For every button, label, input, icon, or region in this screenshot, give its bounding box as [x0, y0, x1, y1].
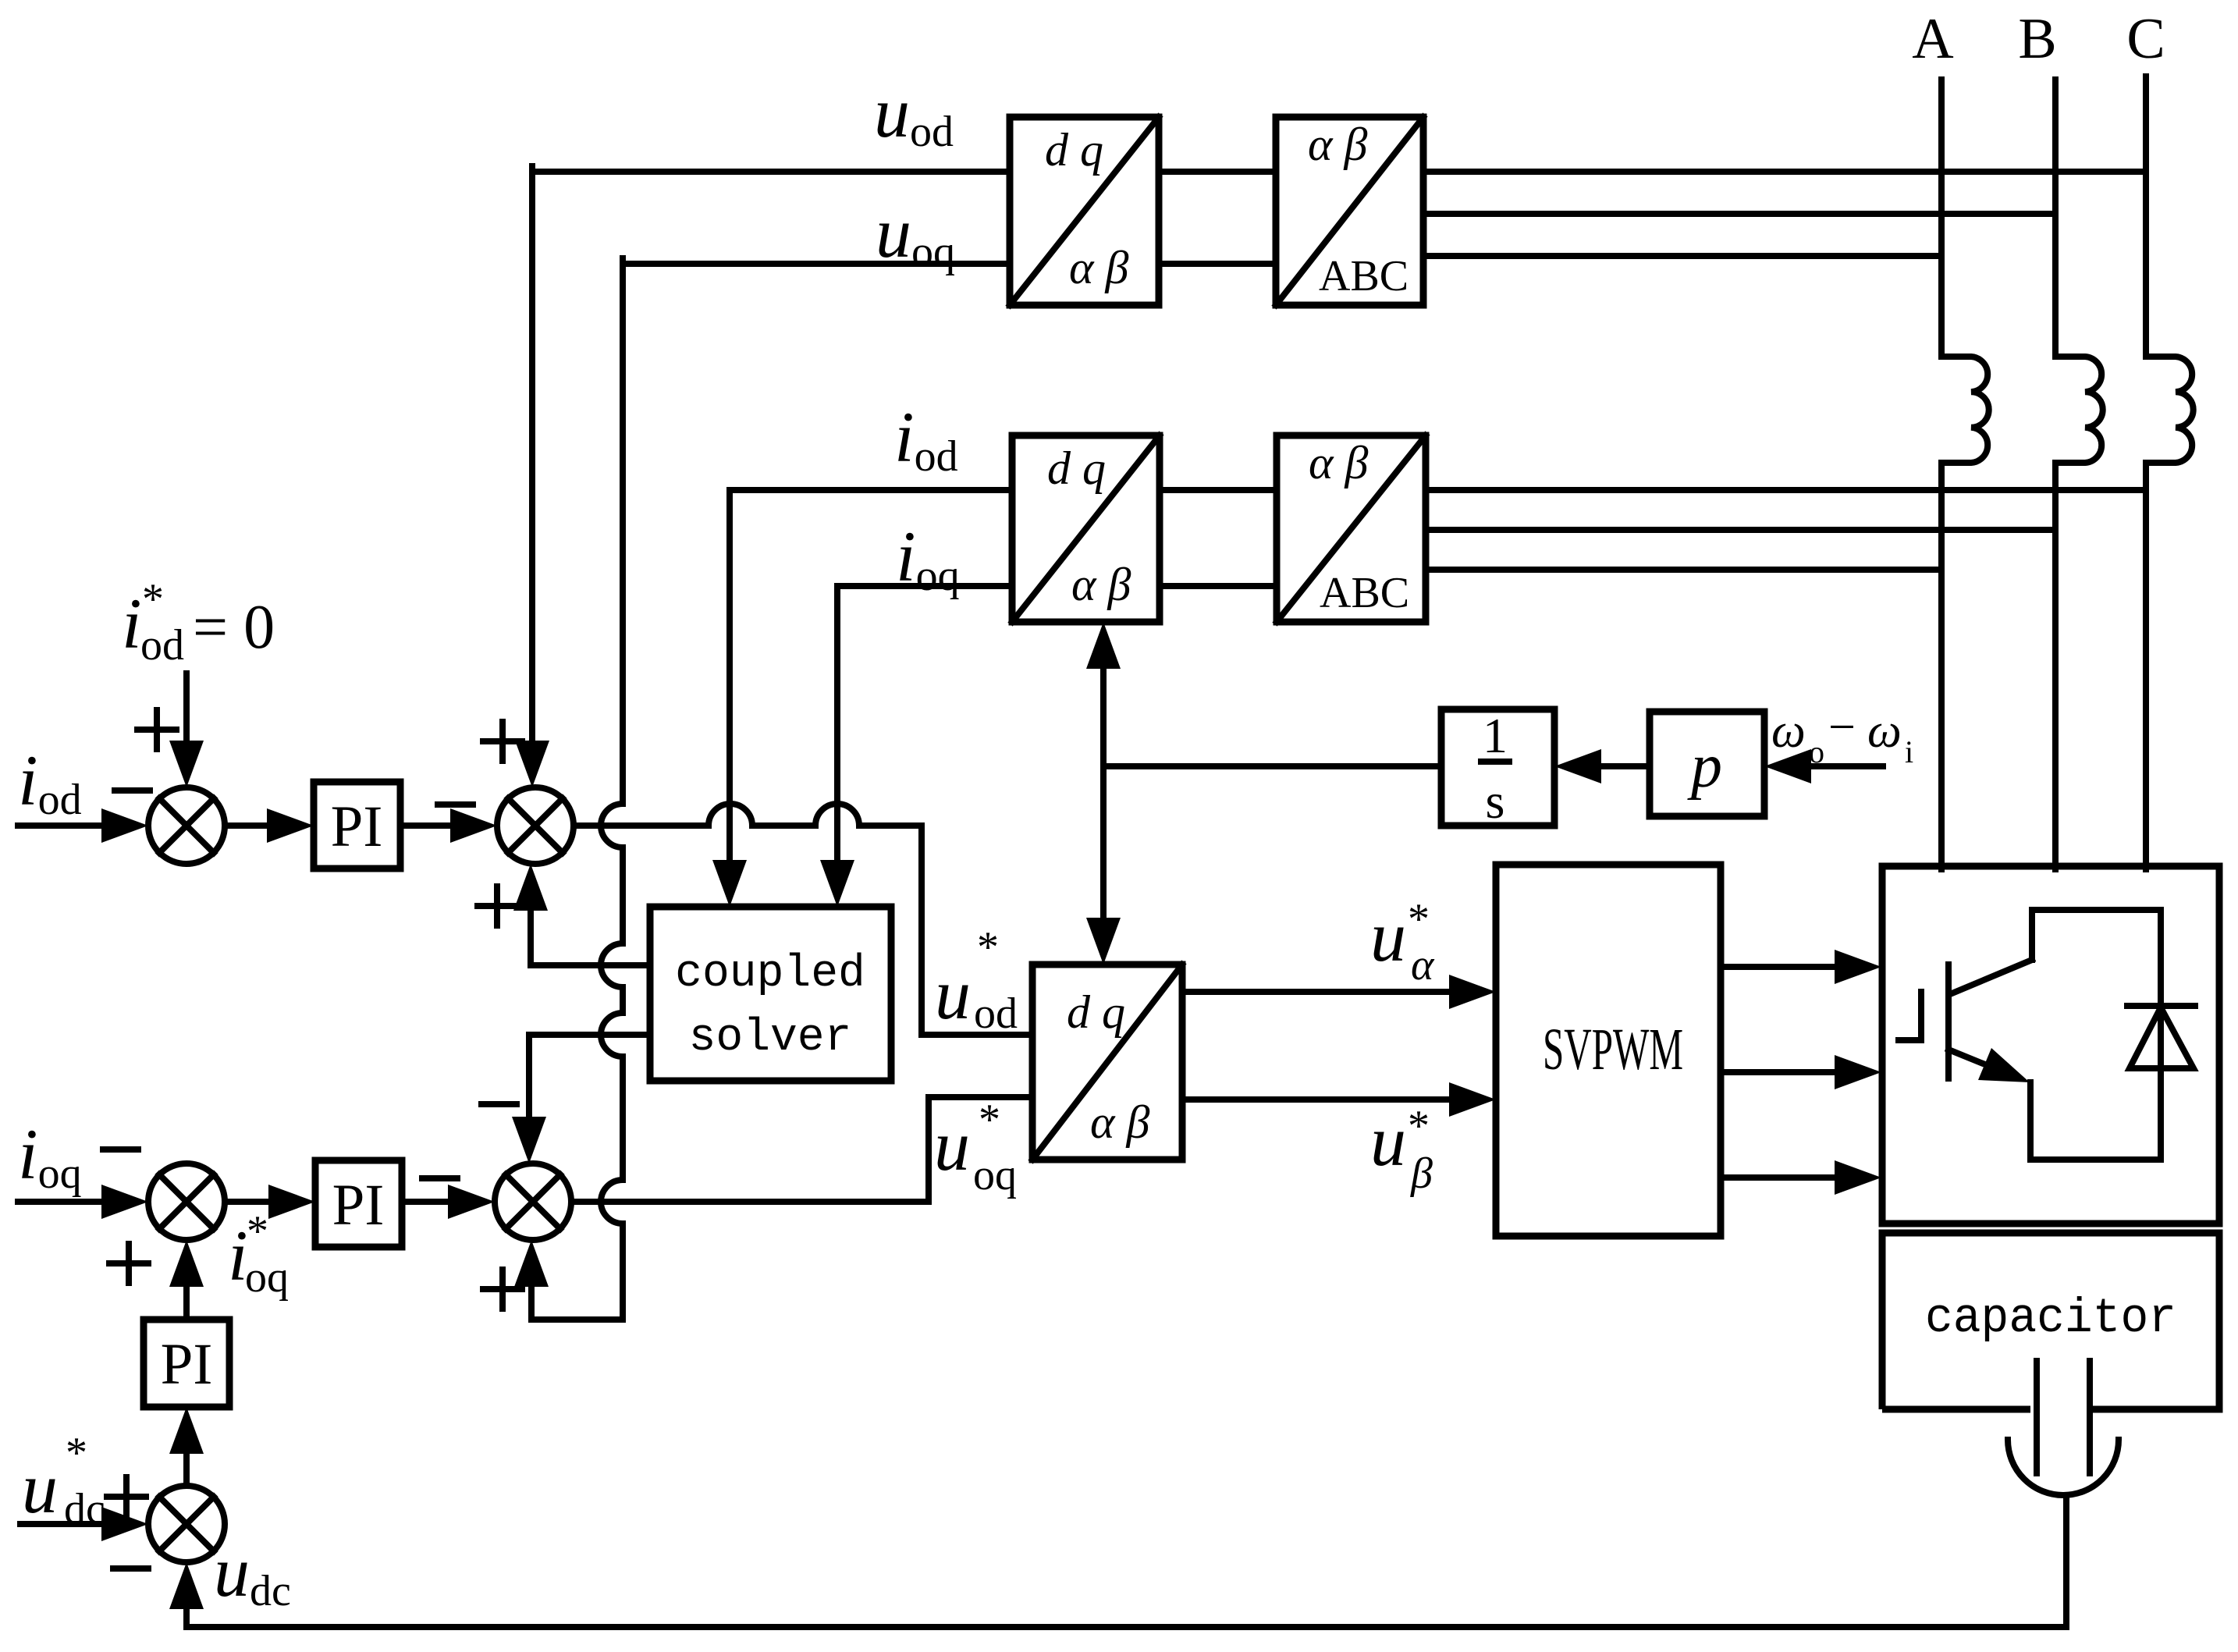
- wire SVPWM gate signal 1: [1721, 964, 1837, 970]
- arrowhead u*beta into SVPWM: [1449, 1082, 1496, 1117]
- wire integrator output to theta node: [1103, 763, 1441, 769]
- svg-text:oq: oq: [973, 1151, 1017, 1199]
- wire IGBT emitter rail: [2030, 1082, 2161, 1160]
- wire ioq tap horizontal: [837, 583, 1012, 589]
- summer S3 (ioq error): [148, 1164, 225, 1240]
- svg-text:*: *: [979, 1096, 1000, 1144]
- svg-text:B: B: [2018, 7, 2056, 71]
- wire coupled solver lower output to S4 top: [529, 1035, 650, 1118]
- svg-text:α β: α β: [1308, 119, 1367, 170]
- wire phase B vertical lower: [2052, 463, 2059, 869]
- diode D1 cathode lead: [2158, 910, 2164, 1006]
- block U1 dq/alpha-beta (voltage): [1010, 117, 1159, 305]
- wire p block to integrator: [1600, 763, 1650, 769]
- svg-text:*: *: [66, 1429, 87, 1477]
- svg-text:ABC: ABC: [1319, 252, 1409, 300]
- wire ioq input into S3: [18, 1199, 105, 1205]
- svg-text:*: *: [1408, 1102, 1430, 1150]
- wire uoq tap vertical (hops over four horizontals): [531, 258, 623, 1320]
- summer S2 (d-axis decoupling): [497, 787, 574, 864]
- svg-text:*: *: [247, 1207, 268, 1256]
- arrowhead PIdc output into S3 bottom: [169, 1240, 204, 1287]
- svg-text:PI: PI: [331, 794, 383, 859]
- wire S4 output to u*oq corner: [571, 1097, 1032, 1202]
- summer S1 (iod error): [148, 787, 225, 864]
- label u*alpha: [1370, 895, 1435, 989]
- inductor phase B: [2055, 357, 2103, 463]
- label plus sign at S3 bottom: [109, 1244, 148, 1283]
- block integrator 1/s: [1441, 708, 1554, 829]
- arrowhead into PI1: [267, 808, 314, 843]
- svg-text:= 0: = 0: [193, 593, 275, 662]
- wire uoq tap horizontal: [623, 261, 1010, 267]
- diode D1 triangle: [2130, 1007, 2194, 1068]
- svg-text:d q: d q: [1047, 442, 1106, 494]
- label plus sign at S2 bottom: [478, 886, 517, 925]
- summer S4 (q-axis decoupling): [495, 1164, 571, 1240]
- block p: [1650, 712, 1764, 816]
- svg-text:u: u: [1370, 897, 1406, 976]
- block U4 alpha-beta/ABC (current): [1277, 435, 1426, 622]
- arrowhead udc feedback into S5 bottom: [169, 1562, 204, 1609]
- wire U3 to U4 lower: [1160, 583, 1277, 589]
- arrowhead iod into S1: [101, 808, 148, 843]
- wire U5 beta output to SVPWM: [1182, 1096, 1451, 1103]
- arrowhead theta into U3: [1086, 622, 1121, 669]
- svg-text:solver: solver: [689, 1013, 852, 1064]
- wire current sense to phase C: [1426, 487, 2146, 493]
- svg-text:PI: PI: [161, 1332, 213, 1397]
- label u*beta: [1370, 1101, 1433, 1198]
- arrowhead iod into coupled solver: [712, 860, 747, 907]
- block coupled solver: [650, 907, 891, 1081]
- wire U1 to U2 lower: [1159, 261, 1276, 267]
- wire voltage sense to phase A: [1423, 253, 1941, 259]
- label plus sign at S1 top: [137, 710, 176, 749]
- svg-text:ω: ω: [1867, 705, 1902, 758]
- svg-text:SVPWM: SVPWM: [1543, 1017, 1683, 1082]
- wire S3 to PI2: [225, 1199, 272, 1205]
- arrowhead u*alpha into SVPWM: [1449, 975, 1496, 1009]
- wire S1 to PI1: [225, 822, 271, 829]
- label minus sign after PI1: [438, 801, 473, 808]
- label plus sign at S4 bottom: [483, 1270, 522, 1309]
- svg-text:u: u: [934, 1106, 970, 1185]
- svg-text:α β: α β: [1069, 242, 1128, 293]
- arrowhead iod* into S1: [169, 741, 204, 787]
- label minus sign after PI2: [422, 1175, 457, 1181]
- arrowhead into PIdc: [169, 1407, 204, 1454]
- wire IGBT collector rail: [2032, 910, 2161, 960]
- label omega_o minus omega_i: [1771, 701, 1913, 769]
- svg-text:*: *: [977, 923, 999, 972]
- wire phase C vertical upper: [2143, 76, 2149, 357]
- arrowhead IGBT emitter: [1978, 1048, 2030, 1082]
- wire coupled solver upper output to S2 bottom: [531, 909, 650, 965]
- block capacitor box: [1882, 1233, 2219, 1409]
- wire U1 to U2 upper: [1159, 169, 1276, 175]
- wire PI1 to summer S2: [400, 822, 454, 829]
- block PI1: [314, 782, 400, 869]
- svg-text:A: A: [1912, 7, 1953, 71]
- wire SVPWM gate signal 2: [1721, 1069, 1837, 1075]
- svg-text:u: u: [935, 954, 971, 1034]
- label plus sign at S2 top: [483, 722, 522, 761]
- arrowhead into S4: [448, 1185, 495, 1219]
- wire iod input into S1: [18, 822, 105, 829]
- wire PI2 to summer S4: [402, 1199, 452, 1205]
- arrowhead gate 1 into inverter: [1835, 950, 1881, 984]
- capacitor C1 right plate: [2087, 1361, 2093, 1473]
- wire U5 alpha output to SVPWM: [1182, 989, 1451, 995]
- label minus sign at S5 bottom: [113, 1565, 148, 1572]
- svg-text:coupled: coupled: [675, 949, 865, 1000]
- inductor phase C: [2146, 357, 2194, 463]
- svg-text:p: p: [1687, 732, 1722, 801]
- diode D1 cathode bar: [2127, 1003, 2195, 1009]
- inductor phase A: [1941, 357, 1989, 463]
- block SVPWM: [1496, 865, 1721, 1236]
- wire S5 output up to PIdc: [183, 1452, 190, 1486]
- label minus sign at S1 left: [115, 787, 150, 794]
- transistor Q1 IGBT body bar: [1945, 965, 1952, 1078]
- svg-text:C: C: [2126, 7, 2165, 71]
- arrowhead uoq into S4 bottom: [514, 1240, 549, 1287]
- arrowhead coupled output into S4 top: [512, 1117, 546, 1164]
- capacitor C1 left plate: [2034, 1361, 2040, 1473]
- svg-text:i: i: [1905, 734, 1913, 769]
- svg-text:ω: ω: [1771, 705, 1806, 758]
- wire iod tap horizontal: [730, 487, 1012, 493]
- transistor Q1 IGBT emitter slant: [1948, 1050, 1995, 1068]
- wire U3 to U4 upper: [1160, 487, 1277, 493]
- label u*oq: [934, 1096, 1017, 1199]
- label minus sign at S3 left: [103, 1146, 138, 1153]
- arrowhead gate 2 into inverter: [1835, 1055, 1881, 1089]
- svg-text:α β: α β: [1090, 1096, 1149, 1148]
- wire iod tap vertical into coupled solver: [726, 490, 733, 862]
- wire phase A vertical lower: [1938, 463, 1945, 869]
- block U3 dq/alpha-beta (current): [1012, 435, 1160, 622]
- block inverter bridge: [1882, 866, 2219, 1224]
- label ioq* reference: [228, 1207, 289, 1302]
- arrowhead into S2: [450, 808, 497, 843]
- svg-text:s: s: [1486, 773, 1505, 829]
- wire S2 output to u*od corner (with hops over iod/ioq taps): [574, 804, 1032, 1035]
- svg-text:u: u: [1370, 1101, 1406, 1181]
- wire phase B vertical upper: [2052, 80, 2059, 357]
- wire voltage sense to phase C: [1423, 169, 2146, 175]
- svg-text:α: α: [1411, 941, 1435, 989]
- wire u*dc input into S5: [20, 1521, 105, 1527]
- wire udc feedback from capacitor to S5: [186, 1496, 2066, 1627]
- wire current sense to phase B: [1426, 527, 2055, 533]
- wire ioq tap vertical into coupled solver: [834, 586, 840, 862]
- svg-text:β: β: [1410, 1149, 1433, 1198]
- svg-text:ABC: ABC: [1320, 569, 1409, 617]
- label u*dc: [22, 1429, 105, 1533]
- diode D1 anode lead: [2158, 1007, 2164, 1160]
- label plus sign at S5 left: [107, 1477, 146, 1516]
- wire phase C vertical lower: [2143, 463, 2149, 869]
- svg-text:od: od: [974, 989, 1018, 1038]
- arrowhead into integrator: [1554, 749, 1601, 783]
- arrowhead into p: [1764, 749, 1811, 783]
- label iod* = 0: [122, 575, 275, 670]
- svg-text:α β: α β: [1071, 559, 1131, 610]
- svg-text:oq: oq: [245, 1253, 289, 1302]
- capacitor C1 socket arc: [2008, 1440, 2119, 1495]
- arrowhead uod into S2: [515, 741, 549, 787]
- wire theta into U3 bottom: [1100, 667, 1107, 766]
- arrowhead coupled output into S2 bottom: [513, 864, 548, 911]
- wire theta into U5 top: [1100, 766, 1107, 919]
- summer S5 (udc error): [148, 1486, 225, 1562]
- arrowhead gate 3 into inverter: [1835, 1160, 1881, 1195]
- svg-text:*: *: [142, 575, 164, 623]
- svg-text:*: *: [1408, 895, 1430, 943]
- svg-text:1: 1: [1483, 708, 1508, 763]
- wire SVPWM gate signal 3: [1721, 1174, 1837, 1181]
- arrowhead ioq into S3: [101, 1185, 148, 1219]
- svg-text:α β: α β: [1309, 437, 1368, 488]
- arrowhead into PI2: [268, 1185, 315, 1219]
- wire current sense to phase A: [1426, 567, 1941, 573]
- svg-text:−: −: [1828, 701, 1856, 754]
- block PI2: [315, 1160, 402, 1247]
- wire uod tap horizontal: [532, 169, 1010, 175]
- wire frequency input into p: [1813, 763, 1883, 769]
- wire iod* reference into summer S1: [183, 673, 190, 742]
- block PIdc: [144, 1320, 229, 1407]
- transistor Q1 IGBT collector slant: [1950, 960, 2032, 994]
- transistor Q1 IGBT gate lead: [1899, 1037, 1921, 1043]
- transistor Q1 IGBT gate bar: [1918, 992, 1924, 1040]
- arrowhead u*dc into S5: [101, 1507, 148, 1541]
- svg-text:d q: d q: [1067, 986, 1125, 1038]
- svg-text:u: u: [22, 1448, 58, 1528]
- svg-text:d q: d q: [1045, 124, 1103, 176]
- block U5 dq/alpha-beta (reference): [1032, 965, 1182, 1160]
- svg-text:PI: PI: [332, 1173, 385, 1238]
- label u*od: [935, 923, 1018, 1038]
- block U2 alpha-beta/ABC (voltage): [1276, 117, 1423, 305]
- svg-text:capacitor: capacitor: [1925, 1291, 2176, 1346]
- wire voltage sense to phase B: [1423, 211, 2055, 217]
- svg-text:i: i: [122, 584, 142, 663]
- label minus sign at S4 top: [481, 1101, 517, 1107]
- wire uod tap vertical into S2: [529, 166, 535, 742]
- svg-text:od: od: [140, 621, 184, 670]
- arrowhead theta into U5: [1086, 918, 1121, 965]
- arrowhead ioq into coupled solver: [820, 860, 854, 907]
- wire PIdc output up into S3: [183, 1285, 190, 1320]
- wire phase A vertical upper: [1938, 80, 1945, 357]
